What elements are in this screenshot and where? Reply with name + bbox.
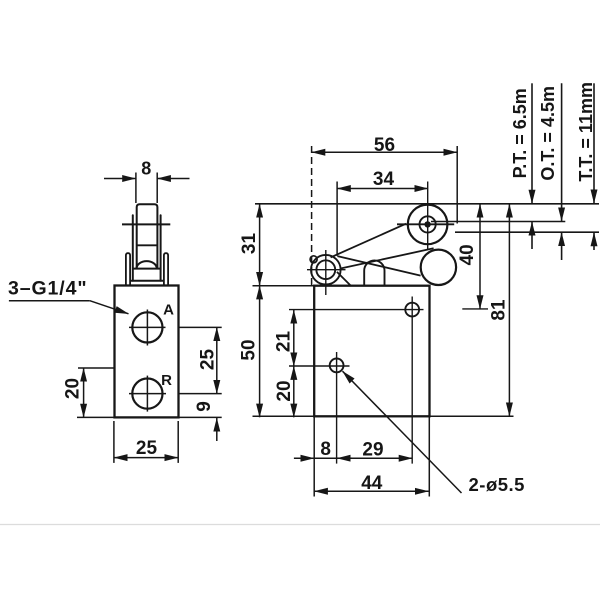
dimension 20 (left view left side) bbox=[77, 368, 115, 417]
T.T. travel line bbox=[593, 83, 595, 250]
body bottom extension (right) bbox=[430, 415, 514, 417]
svg-text:81: 81 bbox=[488, 299, 509, 321]
svg-text:21: 21 bbox=[274, 331, 295, 353]
label 2-diam 5.5 with leader bbox=[343, 371, 462, 493]
svg-text:29: 29 bbox=[362, 439, 383, 460]
svg-text:9: 9 bbox=[194, 401, 215, 412]
body left edge extension (down) bbox=[313, 416, 315, 496]
roller wheel bbox=[408, 205, 448, 245]
pivot tab bbox=[310, 256, 317, 263]
fork guide right wall bbox=[160, 215, 162, 280]
roller vertical axis / dim 34 extension bbox=[427, 182, 429, 250]
dimension 44 bbox=[314, 490, 428, 492]
dimension 34 bbox=[337, 182, 428, 256]
plunger pin line bbox=[122, 223, 170, 225]
dimension 31 bbox=[259, 204, 261, 286]
svg-text:A: A bbox=[163, 302, 174, 319]
roller dome bbox=[137, 261, 157, 269]
body boss circle bbox=[421, 250, 456, 285]
svg-text:40: 40 bbox=[457, 244, 478, 265]
plunger segment line bbox=[137, 244, 158, 246]
dimension 56 bbox=[312, 146, 458, 286]
roller pin center bbox=[424, 221, 430, 227]
fork guide left wall bbox=[132, 215, 134, 280]
pretravel reference line bbox=[431, 221, 565, 223]
mounting hole (top right) bbox=[405, 303, 419, 317]
svg-text:T.T. = 11mm: T.T. = 11mm bbox=[576, 82, 596, 182]
roller pin axis line bbox=[397, 223, 454, 225]
plunger dome (side view) bbox=[364, 260, 384, 285]
pivot circle bbox=[311, 255, 341, 285]
fork bottom line bbox=[130, 280, 163, 282]
svg-text:R: R bbox=[161, 372, 172, 389]
svg-text:50: 50 bbox=[238, 339, 259, 360]
svg-text:34: 34 bbox=[373, 169, 395, 190]
svg-text:O.T. = 4.5m: O.T. = 4.5m bbox=[538, 86, 558, 181]
dimension 8 (bottom) bbox=[294, 457, 413, 459]
svg-text:44: 44 bbox=[361, 473, 383, 494]
svg-text:P.T. = 6.5m: P.T. = 6.5m bbox=[510, 88, 530, 178]
svg-text:31: 31 bbox=[239, 233, 260, 255]
body bottom extension (left) bbox=[253, 415, 315, 417]
lever top reference line bbox=[255, 203, 599, 205]
mounting hole (bottom left) bbox=[330, 359, 344, 373]
dimension 9 (R to bottom) bbox=[179, 417, 222, 441]
dimension 25 (body width, bottom) bbox=[114, 421, 178, 463]
bracket right ear bbox=[164, 253, 168, 285]
dimension 50 bbox=[259, 286, 261, 418]
P.T. travel line bbox=[531, 83, 533, 249]
svg-text:25: 25 bbox=[136, 438, 158, 459]
plunger stem bbox=[137, 204, 158, 268]
port hole A bbox=[132, 312, 162, 342]
dimension 81 bbox=[508, 204, 510, 416]
dimension 25 (A to R) bbox=[179, 327, 222, 393]
port hole R bbox=[132, 379, 162, 409]
O.T. travel line bbox=[561, 83, 563, 260]
lever lower edge bbox=[341, 248, 434, 268]
svg-text:2-ø5.5: 2-ø5.5 bbox=[469, 474, 525, 495]
svg-text:25: 25 bbox=[198, 349, 219, 371]
valve body (front view) bbox=[115, 286, 179, 418]
svg-text:3–G1/4": 3–G1/4" bbox=[8, 278, 88, 300]
roller chord line bbox=[133, 268, 161, 270]
svg-text:8: 8 bbox=[141, 159, 151, 179]
lever lower-right edge bbox=[337, 256, 420, 276]
valve body (side view) bbox=[314, 286, 429, 417]
svg-text:20: 20 bbox=[274, 380, 295, 401]
svg-text:8: 8 bbox=[320, 439, 331, 460]
svg-text:20: 20 bbox=[62, 378, 83, 399]
lever arm upper edge bbox=[331, 224, 406, 258]
dimension 20 bbox=[293, 366, 295, 417]
faint scan separator line bbox=[0, 524, 600, 526]
lever bottom stub bbox=[337, 272, 351, 286]
dimension 40 bbox=[479, 204, 481, 309]
body right edge extension (down) bbox=[428, 416, 430, 496]
dimension 21 bbox=[293, 310, 295, 366]
bracket left ear bbox=[126, 253, 130, 285]
body top extension (left) bbox=[253, 285, 315, 287]
roller pin boss bbox=[420, 216, 436, 232]
total travel reference line bbox=[455, 231, 599, 233]
svg-text:56: 56 bbox=[374, 135, 395, 156]
mounting hole line extension bbox=[289, 309, 401, 311]
dimension 8 (plunger width) bbox=[104, 173, 190, 204]
